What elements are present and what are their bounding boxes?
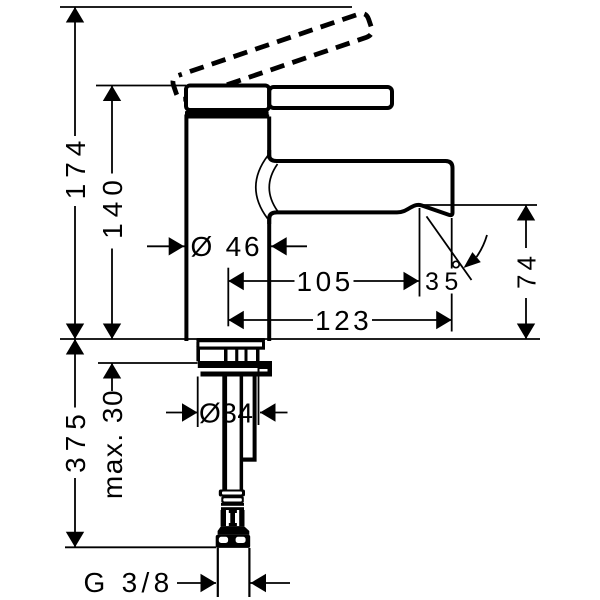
svg-text:174: 174 [60,135,91,200]
svg-text:74: 74 [512,252,542,289]
svg-text:105: 105 [297,266,354,297]
svg-text:375: 375 [60,408,91,473]
svg-text:35: 35 [425,268,464,296]
svg-text:Ø34: Ø34 [199,398,253,429]
svg-text:Ø 46: Ø 46 [191,231,263,262]
svg-text:max. 30: max. 30 [97,389,128,499]
svg-text:140: 140 [97,174,128,239]
svg-text:G 3/8: G 3/8 [84,567,174,598]
svg-text:123: 123 [315,305,372,336]
